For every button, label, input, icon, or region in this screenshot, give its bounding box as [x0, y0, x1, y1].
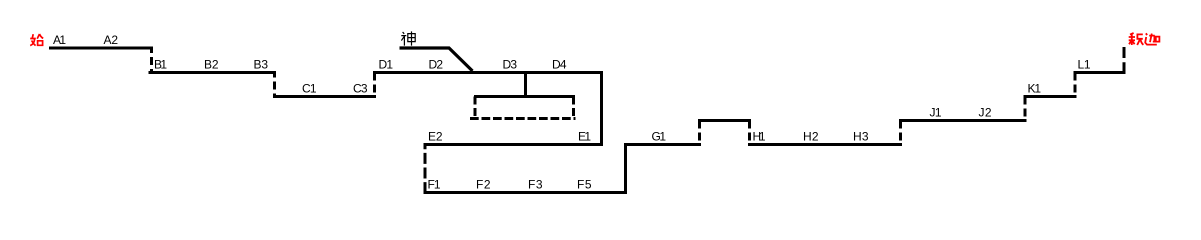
svg-text:B1: B1 [154, 58, 167, 72]
segment K (row 2 horizontal) [1024, 95, 1077, 98]
svg-text:A2: A2 [104, 33, 119, 47]
wire from 神 (horizontal then diagonal into D row) [400, 48, 473, 71]
vertical J2-K1 (dashed rise) [1024, 97, 1027, 123]
vertical E2-F1 (dashed drop) [424, 145, 427, 195]
segment C (row 2 horizontal) [273, 95, 376, 98]
svg-text:D3: D3 [503, 58, 518, 72]
svg-text:F5: F5 [577, 178, 592, 192]
svg-text:D2: D2 [429, 58, 444, 72]
vertical K1-L1 (dashed rise) [1074, 73, 1077, 99]
segment B (row 1 horizontal) [149, 71, 277, 74]
svg-text:E2: E2 [428, 130, 443, 144]
vertical L1 to top (dashed rise to 釈迦) [1123, 47, 1126, 74]
segment L (row 1 horizontal) [1074, 71, 1126, 74]
box left side (dashed) [474, 97, 477, 119]
text 神 (black) [401, 31, 415, 45]
bump top (row 3 horizontal) [698, 119, 751, 122]
segment A (row 0 horizontal) [49, 47, 153, 50]
svg-text:H2: H2 [803, 130, 819, 144]
svg-text:K1: K1 [1028, 82, 1042, 96]
vertical B3-C1 (dashed drop) [273, 73, 276, 99]
vertical G1-bump left (dashed rise) [698, 121, 701, 147]
svg-text:F2: F2 [476, 178, 491, 192]
svg-text:F1: F1 [428, 178, 441, 192]
text 釈迦 (red, end) [1129, 33, 1160, 45]
svg-text:E1: E1 [578, 130, 591, 144]
svg-text:J2: J2 [979, 106, 992, 120]
stem D3 to box (solid) [524, 73, 527, 97]
segment H (row 4 horizontal) [748, 143, 902, 146]
svg-text:D4: D4 [552, 58, 567, 72]
svg-text:D1: D1 [379, 58, 394, 72]
vertical bump right-H1 (dashed drop) [748, 121, 751, 147]
segment G (row 4 horizontal) [624, 143, 701, 146]
segment F (row 6 horizontal) [424, 191, 628, 194]
svg-text:C1: C1 [302, 82, 317, 96]
svg-text:L1: L1 [1078, 58, 1091, 72]
vertical C3-D1 (dashed rise) [373, 73, 376, 99]
svg-text:F3: F3 [528, 178, 543, 192]
box top (solid) [474, 95, 575, 98]
svg-text:A1: A1 [53, 33, 66, 47]
svg-text:B3: B3 [254, 58, 269, 72]
segment J (row 3 horizontal) [899, 119, 1027, 122]
svg-text:H1: H1 [753, 130, 766, 144]
svg-text:C3: C3 [353, 82, 368, 96]
box bottom (dashed) [470, 117, 576, 120]
segment D (row 1 horizontal) [373, 71, 603, 74]
vertical F5-G1 (solid rise) [624, 145, 627, 193]
vertical A2-B1 (dashed drop) [150, 48, 153, 74]
svg-text:J1: J1 [930, 106, 942, 120]
segment E (row 4 horizontal) [424, 143, 604, 146]
svg-text:H3: H3 [853, 130, 869, 144]
vertical H3-J1 (dashed rise) [899, 121, 902, 147]
svg-text:B2: B2 [204, 58, 219, 72]
text 始 (red, start) [30, 34, 43, 46]
box right side (dashed) [572, 97, 575, 119]
vertical D4-E1 (solid drop) [600, 73, 603, 147]
svg-text:G1: G1 [652, 130, 667, 144]
